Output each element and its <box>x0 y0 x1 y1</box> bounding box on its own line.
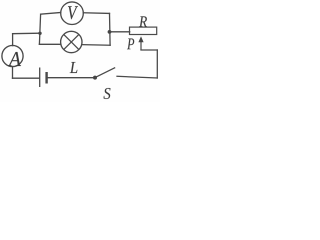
wire right vertical of parallel loop <box>109 13 112 45</box>
label S <box>104 88 111 99</box>
wire node-left to ammeter corner <box>13 32 40 35</box>
node junction left (dot) <box>38 32 41 35</box>
rheostat R body <box>130 27 157 34</box>
wire ammeter bottom down <box>12 67 14 79</box>
battery long plate <box>39 68 41 88</box>
label L <box>70 62 78 73</box>
wire corner to slider stem <box>141 49 157 51</box>
lamp cross stroke 2 <box>64 34 79 49</box>
wire bottom left to battery <box>13 77 40 79</box>
lamp cross stroke 1 <box>64 34 79 49</box>
switch S lever <box>95 68 115 78</box>
wire lamp branch left <box>39 43 61 45</box>
voltmeter V circle <box>61 2 84 25</box>
switch S pivot dot <box>93 76 97 80</box>
voltmeter V letter label <box>68 6 78 19</box>
ammeter A circle <box>2 45 23 66</box>
wire lamp branch right <box>82 44 110 47</box>
rheostat slider P arrow head <box>138 36 143 42</box>
wire down to ammeter top <box>12 34 14 46</box>
ammeter A letter label <box>8 52 21 66</box>
rheostat slider P arrow stem <box>140 41 142 51</box>
wire battery to switch pivot <box>47 77 95 79</box>
wire left vertical of parallel loop <box>39 14 40 44</box>
battery short plate <box>45 72 47 84</box>
wire switch fixed contact to bottom-right corner <box>117 76 157 78</box>
lamp circle <box>61 31 82 52</box>
wire right edge vertical up <box>156 50 158 78</box>
label P <box>127 38 134 49</box>
wire top branch right (voltmeter to top-right corner) <box>83 12 109 15</box>
wire top branch left (junction box to voltmeter) <box>41 13 61 15</box>
label R <box>139 16 147 26</box>
wire rheostat node to rheostat <box>110 31 130 33</box>
node junction right (dot) <box>108 30 112 34</box>
